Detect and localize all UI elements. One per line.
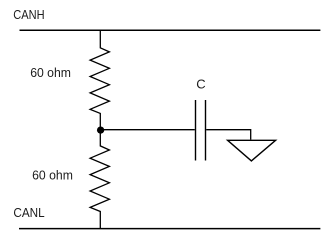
svg-text:60 ohm: 60 ohm xyxy=(32,167,73,182)
svg-text:C: C xyxy=(196,77,205,92)
svg-text:60 ohm: 60 ohm xyxy=(30,65,71,80)
svg-text:CANH: CANH xyxy=(13,7,44,22)
svg-text:CANL: CANL xyxy=(13,205,44,220)
